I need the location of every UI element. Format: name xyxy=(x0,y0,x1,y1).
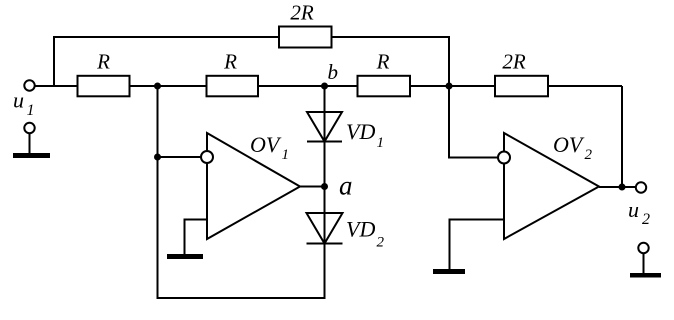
junction right of R3 xyxy=(446,83,453,90)
svg-text:2: 2 xyxy=(585,147,593,163)
label VD2 xyxy=(346,217,385,251)
op-amp OV2 inverting input bubble xyxy=(498,152,510,164)
svg-text:2R: 2R xyxy=(290,1,314,25)
svg-text:VD: VD xyxy=(346,119,375,144)
label u1 xyxy=(13,88,35,120)
label u2 xyxy=(628,197,650,228)
input ground terminal circle xyxy=(24,123,34,133)
wire diode chain vertical through b, a to bottom rail xyxy=(324,86,326,298)
svg-text:R: R xyxy=(223,50,237,74)
node a junction xyxy=(321,183,328,190)
svg-text:OV: OV xyxy=(250,132,282,157)
svg-text:1: 1 xyxy=(282,147,290,163)
resistor R3 xyxy=(358,76,411,97)
terminal u2 xyxy=(636,182,646,192)
wire output feedback vertical xyxy=(621,86,623,187)
label OV1 xyxy=(250,132,289,163)
svg-text:R: R xyxy=(96,50,110,74)
terminal u1 xyxy=(24,80,34,90)
junction after R1 xyxy=(154,83,161,90)
node b junction xyxy=(321,83,328,90)
wire OV1 output to node a xyxy=(300,186,325,188)
ground (output port) xyxy=(630,273,661,278)
junction at OV2 output xyxy=(619,184,626,191)
svg-text:b: b xyxy=(328,60,339,84)
op-amp OV1 inverting input bubble xyxy=(201,151,213,163)
wire R2 to R3 segment through node b xyxy=(257,85,358,87)
wire OV2 output to terminal xyxy=(599,186,636,188)
svg-text:u: u xyxy=(13,88,24,113)
wire OV1 inverting input xyxy=(158,156,202,158)
svg-text:2R: 2R xyxy=(502,50,526,74)
wire OV1 non-inverting input to ground xyxy=(185,220,208,256)
wire 2R to output branch xyxy=(547,85,622,87)
label OV2 xyxy=(553,132,593,163)
wire input ground stem xyxy=(29,134,31,154)
wire input rail u1 to R1 xyxy=(35,85,78,87)
wire OV2 non-inverting input to ground xyxy=(450,220,505,271)
wire top feedback rail xyxy=(54,36,449,38)
svg-text:u: u xyxy=(628,197,639,222)
svg-text:2: 2 xyxy=(377,235,385,251)
wire output ground stem xyxy=(643,254,645,274)
wire R1 to R2 segment xyxy=(129,85,207,87)
resistor 2R (top feedback) xyxy=(279,27,332,48)
op-amp OV1 xyxy=(207,133,300,239)
ground (input port) xyxy=(13,153,50,158)
svg-text:OV: OV xyxy=(553,132,585,157)
svg-text:R: R xyxy=(376,50,390,74)
label VD1 xyxy=(346,119,384,151)
output ground terminal circle xyxy=(638,243,648,253)
resistor R2 xyxy=(207,76,259,97)
wire left vertical bus x=157.5 xyxy=(157,85,159,299)
ground (OV1 non-inverting) xyxy=(167,254,203,259)
diode VD2 xyxy=(307,213,343,244)
wire junction down to OV2 inverting input xyxy=(449,86,498,158)
svg-text:VD: VD xyxy=(346,217,375,242)
resistor 2R (output) xyxy=(495,76,548,97)
svg-text:2: 2 xyxy=(642,211,650,228)
op-amp OV2 xyxy=(504,133,599,239)
resistor R1 xyxy=(78,76,130,97)
ground (OV2 non-inverting) xyxy=(433,269,465,274)
wire left branch vertical from top rail to input rail xyxy=(53,36,55,86)
wire right branch vertical from top rail to main rail xyxy=(448,36,450,87)
diode VD1 xyxy=(307,112,342,142)
svg-text:1: 1 xyxy=(377,135,385,151)
junction at OV1 inverting input xyxy=(154,154,161,161)
wire bottom feedback rail xyxy=(157,297,326,299)
svg-text:a: a xyxy=(339,171,353,201)
svg-text:1: 1 xyxy=(27,102,35,119)
wire R3 to 2R segment xyxy=(409,85,496,87)
